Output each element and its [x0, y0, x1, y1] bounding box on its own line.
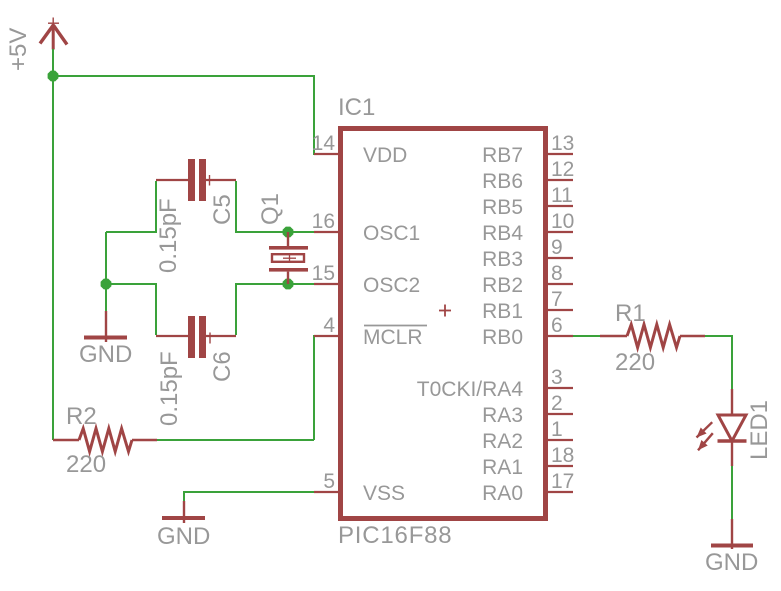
pin 14 VDD left — [312, 132, 408, 167]
wire GND net to C6 left — [106, 284, 156, 335]
pin 1 RA2 right — [482, 418, 573, 453]
svg-text:GND: GND — [157, 523, 210, 550]
op IC U1 box IC1 PIC16F88 — [341, 129, 546, 519]
svg-text:GND: GND — [79, 341, 132, 368]
svg-text:11: 11 — [551, 184, 573, 207]
svg-text:2: 2 — [551, 392, 563, 415]
pin 11 RB5 right — [482, 184, 573, 219]
wire OSC1 net C5 right to pin 16 — [236, 181, 316, 232]
resistor R1 — [600, 325, 705, 348]
svg-text:RB7: RB7 — [482, 144, 523, 167]
svg-text:C6: C6 — [209, 351, 236, 382]
svg-text:IC1: IC1 — [338, 94, 375, 121]
svg-text:RB6: RB6 — [482, 170, 523, 193]
junction dot OSC1 at Q1 top — [283, 227, 294, 238]
svg-text:VDD: VDD — [363, 144, 407, 167]
svg-text:RB5: RB5 — [482, 196, 523, 219]
wire MCLR pin4 to R2 row — [314, 336, 316, 440]
pin 16 OSC1 left — [312, 210, 421, 245]
svg-text:13: 13 — [551, 132, 574, 155]
pin 17 RA0 right — [482, 470, 574, 505]
svg-text:OSC1: OSC1 — [363, 222, 420, 245]
ground GND right (LED1) — [711, 519, 753, 549]
ground GND middle (VSS) — [162, 501, 205, 523]
svg-text:6: 6 — [551, 314, 563, 337]
svg-text:1: 1 — [551, 418, 563, 441]
svg-text:RB2: RB2 — [482, 274, 523, 297]
svg-text:+5V: +5V — [5, 28, 32, 71]
svg-text:15: 15 — [312, 262, 335, 285]
crystal Q1 — [269, 232, 308, 284]
svg-text:LED1: LED1 — [746, 400, 773, 460]
wire OSC2 net C6 right to pin 15 — [236, 284, 316, 335]
svg-text:7: 7 — [551, 288, 563, 311]
svg-text:16: 16 — [312, 210, 335, 233]
svg-text:220: 220 — [615, 349, 655, 376]
wire GND net C5 left drop — [106, 181, 156, 232]
svg-text:RB4: RB4 — [482, 222, 523, 245]
ground GND left (crystal caps) — [84, 311, 127, 342]
pin 3 T0CKI/RA4 right — [417, 366, 573, 401]
junction dot GND net — [101, 279, 112, 290]
wire +5V top rail to pin 14 — [53, 76, 316, 154]
svg-text:GND: GND — [705, 549, 758, 576]
capacitor C6 — [156, 316, 236, 358]
svg-text:VSS: VSS — [363, 482, 405, 505]
pin 18 RA1 right — [482, 444, 574, 479]
LED LED1 — [694, 389, 747, 466]
svg-text:T0CKI/RA4: T0CKI/RA4 — [417, 378, 524, 401]
svg-text:RA2: RA2 — [482, 430, 523, 453]
wire GND stub below junction — [105, 284, 107, 311]
pin 5 VSS left — [314, 470, 405, 505]
wire +5V vertical rail — [52, 49, 54, 440]
svg-text:MCLR: MCLR — [363, 326, 423, 349]
wire RB0 pin6 to R1 — [573, 335, 600, 337]
svg-text:OSC2: OSC2 — [363, 274, 420, 297]
power symbol +5V — [40, 18, 67, 50]
pin 2 RA3 right — [482, 392, 573, 427]
wire R2 to MCLR net horizontal — [157, 439, 314, 441]
svg-text:17: 17 — [551, 470, 574, 493]
pin 9 RB3 right — [482, 236, 573, 271]
svg-text:RB0: RB0 — [482, 326, 523, 349]
svg-text:RA1: RA1 — [482, 456, 523, 479]
svg-text:0.15pF: 0.15pF — [156, 351, 183, 426]
wire R1 to LED1 — [705, 336, 732, 389]
svg-text:RA3: RA3 — [482, 404, 523, 427]
svg-text:12: 12 — [551, 158, 574, 181]
svg-text:4: 4 — [323, 314, 335, 337]
pin 6 RB0 right — [482, 314, 573, 349]
svg-text:5: 5 — [323, 470, 335, 493]
svg-text:C5: C5 — [209, 194, 236, 225]
wire VSS pin5 to GND — [184, 492, 316, 501]
capacitor C5 — [156, 159, 236, 201]
pin 8 RB2 right — [482, 262, 573, 297]
svg-text:RB1: RB1 — [482, 300, 523, 323]
pin 10 RB4 right — [482, 210, 574, 245]
pin 15 OSC2 left — [312, 262, 421, 297]
pin 7 RB1 right — [482, 288, 573, 323]
origin cross IC1 — [439, 305, 451, 317]
pin 12 RB6 right — [482, 158, 574, 193]
svg-text:220: 220 — [66, 451, 106, 478]
svg-text:R2: R2 — [66, 403, 97, 430]
svg-text:14: 14 — [312, 132, 336, 155]
svg-text:0.15pF: 0.15pF — [155, 198, 182, 273]
pin 4 MCLR left — [314, 314, 427, 349]
wire LED1 cathode to GND — [731, 466, 733, 519]
svg-text:8: 8 — [551, 262, 563, 285]
svg-text:18: 18 — [551, 444, 574, 467]
svg-text:10: 10 — [551, 210, 574, 233]
svg-text:RA0: RA0 — [482, 482, 523, 505]
wire GND net left vertical — [105, 232, 107, 284]
junction dot +5V rail — [48, 71, 59, 82]
svg-text:Q1: Q1 — [257, 193, 284, 225]
resistor R2 — [53, 429, 157, 452]
svg-text:RB3: RB3 — [482, 248, 523, 271]
pin 13 RB7 right — [482, 132, 574, 167]
svg-text:3: 3 — [551, 366, 563, 389]
svg-text:R1: R1 — [615, 300, 646, 327]
junction dot OSC2 at Q1 bottom — [283, 279, 294, 290]
svg-text:PIC16F88: PIC16F88 — [338, 522, 452, 549]
svg-text:9: 9 — [551, 236, 563, 259]
